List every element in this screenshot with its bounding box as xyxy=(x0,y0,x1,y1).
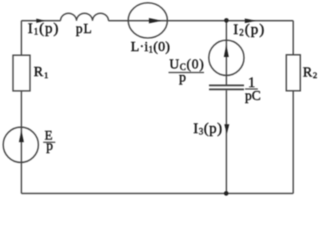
svg-text:pL: pL xyxy=(76,21,93,36)
svg-text:I3(p): I3(p) xyxy=(193,121,223,137)
svg-text:I2(p): I2(p) xyxy=(233,22,265,38)
svg-text:R2: R2 xyxy=(303,65,318,80)
svg-text:R1: R1 xyxy=(34,65,50,80)
svg-text:p: p xyxy=(179,71,186,86)
svg-text:UC(0): UC(0) xyxy=(169,57,204,73)
svg-text:L·i1(0): L·i1(0) xyxy=(131,40,170,55)
svg-text:p: p xyxy=(46,138,53,153)
svg-text:pC: pC xyxy=(245,88,261,103)
svg-text:I1(p): I1(p) xyxy=(28,21,60,37)
